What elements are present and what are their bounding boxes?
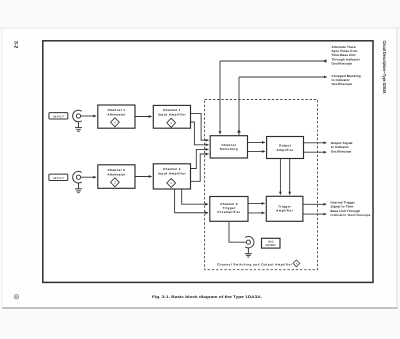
svg-text:Preamplifier: Preamplifier (218, 210, 242, 214)
svg-text:Channel 2: Channel 2 (108, 168, 126, 172)
svg-text:Switching: Switching (220, 147, 238, 151)
svg-text:Indicator Oscilloscope: Indicator Oscilloscope (331, 213, 371, 217)
svg-text:Output: Output (279, 144, 291, 148)
svg-text:INPUT: INPUT (53, 177, 64, 180)
svg-text:Oscilloscope: Oscilloscope (332, 82, 353, 86)
svg-text:Oscilloscope: Oscilloscope (332, 61, 353, 65)
svg-text:Input Amplifier: Input Amplifier (158, 112, 187, 116)
svg-text:Channel Switching and Output A: Channel Switching and Output Amplifier (217, 263, 293, 267)
svg-text:3-2: 3-2 (13, 41, 19, 48)
svg-text:OUTPUT: OUTPUT (266, 244, 277, 247)
svg-text:Input Amplifier: Input Amplifier (158, 171, 187, 175)
svg-text:INPUT: INPUT (53, 116, 64, 119)
svg-text:Attenuator: Attenuator (107, 172, 126, 176)
svg-text:Oscilloscope: Oscilloscope (331, 149, 352, 153)
svg-text:Amplifier: Amplifier (277, 148, 295, 152)
svg-text:Channel 1: Channel 1 (163, 108, 181, 112)
svg-text:Circuit Description—Type 1DA3A: Circuit Description—Type 1DA3A (382, 41, 387, 95)
svg-text:Channel 2: Channel 2 (163, 167, 181, 171)
svg-text:Channel 1: Channel 1 (108, 108, 126, 112)
svg-text:Fig. 3-1. Basic block diagram: Fig. 3-1. Basic block diagram of the Typ… (152, 295, 262, 299)
svg-text:Attenuator: Attenuator (107, 112, 126, 116)
svg-text:Amplifier: Amplifier (276, 208, 294, 212)
